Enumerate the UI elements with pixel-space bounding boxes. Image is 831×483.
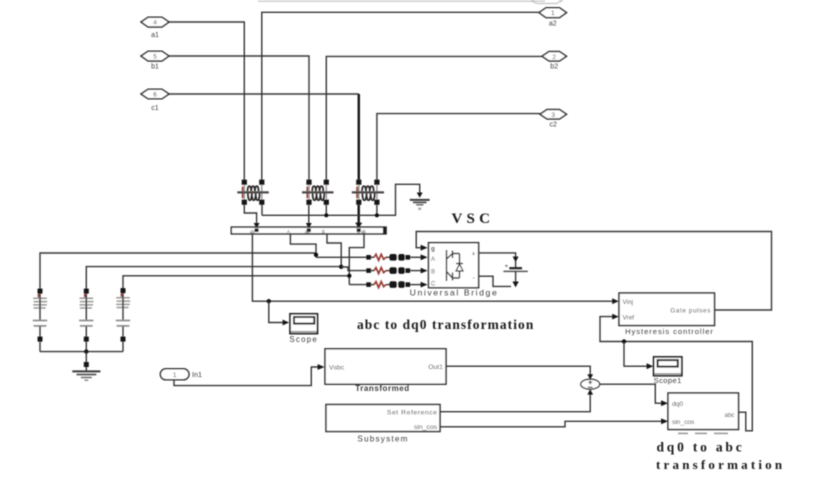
wire In1 to subsystem Vsbc — [174, 367, 318, 386]
arrow down into DC source — [513, 257, 519, 263]
wire bridge - return to DC source — [479, 276, 511, 286]
svg-text:c1: c1 — [151, 105, 159, 112]
svg-text:a1: a1 — [151, 32, 159, 39]
port 2 (b2) — [542, 52, 567, 71]
wire sum to dq0 input — [600, 384, 662, 403]
svg-text:Vref: Vref — [623, 315, 635, 322]
wire filter1 to node A — [40, 253, 316, 289]
arrow into bus (phase C) — [355, 223, 362, 229]
svg-text:Universal Bridge: Universal Bridge — [410, 287, 499, 297]
wire tap to Scope1 — [624, 342, 647, 367]
filter branch F1 (series RLC) — [33, 289, 47, 352]
port 3 (c2) — [540, 110, 567, 129]
ground G2 — [72, 371, 100, 380]
svg-text:dq0 to abc: dq0 to abc — [657, 440, 745, 455]
svg-text:sin_cos: sin_cos — [414, 424, 438, 431]
svg-text:6: 6 — [153, 92, 157, 99]
svg-text:1: 1 — [551, 10, 555, 17]
wire bus Vabc output to Vinj (long) — [252, 234, 613, 301]
dq0 to abc block — [668, 393, 739, 430]
port 4 (a1) — [141, 17, 169, 39]
svg-text:A: A — [287, 229, 290, 234]
svg-text:Scope1: Scope1 — [654, 376, 682, 385]
svg-text:b1: b1 — [151, 64, 159, 71]
transformer T1 — [237, 180, 268, 205]
faint cropped wire at top edge — [258, 0, 545, 2]
wire bold T3 primary vertical — [358, 94, 360, 180]
svg-text:5: 5 — [153, 54, 157, 61]
arrow into Vinj — [612, 298, 619, 304]
port 6 (c1) — [141, 89, 169, 112]
hysteresis controller block — [619, 293, 715, 326]
wire c1 to transformer T3 primary — [169, 93, 359, 95]
wire a1 to transformer T1 primary — [169, 22, 244, 180]
arrow into Scope — [283, 320, 290, 326]
svg-text:2: 2 — [552, 54, 556, 61]
port 5 (b1) — [141, 51, 169, 70]
RL branch B — [366, 267, 427, 274]
DC voltage source C1 — [503, 260, 527, 286]
svg-text:a2: a2 — [549, 21, 557, 28]
wire filter common bus — [40, 351, 123, 353]
arrow into bus (phase A) — [254, 223, 260, 228]
neutral wire T1/T2/T3 secondary bottoms to ground — [262, 184, 420, 215]
wire T3 secondary top to c2 — [377, 114, 540, 180]
junction scope tap — [267, 299, 271, 303]
wire node B to RL branch B — [341, 267, 366, 271]
wire T3 bottom-left to measurement bus — [358, 205, 360, 223]
junction node C — [347, 274, 351, 278]
wire T1 secondary top to a2 — [262, 12, 539, 179]
junction T2 neutral — [324, 213, 328, 217]
wire gate pulses loop to bridge g — [416, 232, 771, 311]
wire bus output B zigzag — [327, 234, 341, 267]
svg-text:VSC: VSC — [452, 211, 495, 227]
filter branch F2 (series RLC) — [79, 289, 93, 352]
svg-text:sin_cos: sin_cos — [672, 419, 695, 426]
arrow into bridge g — [421, 245, 428, 251]
svg-text:Scope: Scope — [289, 335, 318, 344]
svg-text:1: 1 — [173, 372, 177, 379]
arrow into DC source bottom — [512, 282, 518, 288]
wire filter3 to node C — [123, 276, 349, 289]
svg-text:g: g — [431, 246, 435, 253]
arrow into Vref — [612, 314, 619, 320]
subsystem S1 (transformed) — [325, 349, 446, 384]
inport In1 — [160, 369, 189, 380]
svg-text:+: + — [505, 263, 509, 270]
wire Out1 to sum — [446, 366, 590, 375]
wire abc output loop to Vref and Scope1 — [600, 317, 752, 431]
arrow into bus (phase B) — [306, 223, 312, 228]
port 1 (a2) — [539, 8, 567, 28]
RL branch C — [366, 281, 427, 288]
wire T2 secondary top to b2 — [326, 56, 542, 179]
svg-text:A: A — [431, 257, 435, 263]
wire into ground G2 — [85, 367, 87, 371]
arrow into dq0 — [661, 400, 668, 406]
svg-text:3: 3 — [551, 112, 555, 119]
svg-text:Set Reference: Set Reference — [387, 410, 438, 417]
svg-text:Hysteresis controller: Hysteresis controller — [625, 327, 714, 336]
arrow into ground G1 — [417, 193, 423, 198]
ground G1 — [410, 200, 430, 211]
wire filter2 to node B — [86, 267, 341, 289]
label smudge under dq0 block — [678, 433, 728, 435]
scope block Scope1 — [654, 357, 682, 376]
svg-text:abc to dq0 transformation: abc to dq0 transformation — [357, 317, 534, 332]
svg-text:ab: ab — [305, 229, 310, 234]
wire neutral to ground G2 — [85, 352, 87, 363]
scope block Scope — [290, 314, 318, 334]
wire node A to RL branch A — [316, 256, 367, 258]
arrow into Scope1 — [647, 363, 654, 369]
svg-text:Gate pulses: Gate pulses — [670, 308, 711, 315]
junction T3 neutral — [375, 213, 379, 217]
wire T1 bottom-left to measurement bus — [244, 205, 256, 223]
svg-text:Subsystem: Subsystem — [357, 435, 408, 444]
subsystem S2 (reference generator) — [326, 405, 440, 432]
svg-text:dq0: dq0 — [672, 401, 683, 408]
junction node A — [314, 253, 318, 257]
svg-text:4: 4 — [153, 20, 157, 27]
sum block — [581, 379, 600, 389]
junction filter neutral — [84, 349, 88, 353]
wire node C to RL branch C — [349, 284, 366, 286]
svg-text:b2: b2 — [550, 64, 558, 71]
svg-text:+: + — [472, 251, 476, 258]
wire T2 bottom-left to measurement bus — [308, 205, 310, 223]
transformer T2 — [302, 180, 334, 205]
svg-text:Out1: Out1 — [428, 364, 443, 371]
filter branch F3 (series RLC) — [116, 288, 130, 352]
svg-text:In1: In1 — [192, 370, 202, 379]
svg-text:B: B — [431, 269, 435, 275]
svg-text:B: B — [322, 229, 325, 234]
svg-text:c2: c2 — [549, 122, 557, 129]
universal bridge U1 — [429, 243, 479, 288]
wire Set Reference to sum — [440, 394, 590, 412]
arrow into sum top — [587, 374, 593, 379]
svg-text:transformation: transformation — [656, 457, 785, 472]
wire sin_cos to dq0 block — [440, 421, 662, 427]
svg-text:Vsbc: Vsbc — [329, 365, 345, 372]
terminal square G2 — [84, 362, 89, 367]
wire tap to Scope — [269, 301, 283, 322]
svg-text:Vinj: Vinj — [623, 299, 634, 306]
arrow into sin_cos input — [661, 418, 668, 424]
svg-text:abc: abc — [725, 412, 735, 419]
RL branch A — [366, 254, 427, 261]
arrow into sum bottom — [587, 389, 593, 394]
wire b1 to transformer T2 primary — [169, 56, 309, 180]
svg-text:ab: ab — [250, 229, 255, 234]
arrow into Vsbc — [318, 364, 325, 370]
transformer T3 — [352, 180, 384, 205]
wire bridge + to DC source — [479, 253, 516, 258]
three-phase V-I measurement bus — [231, 227, 386, 234]
svg-text:Transformed: Transformed — [355, 384, 410, 393]
faint cropped port at top edge — [531, 0, 562, 4]
svg-text:C ab: C ab — [357, 229, 367, 234]
junction Vref/Scope1 tap — [622, 339, 626, 343]
junction node B — [339, 265, 343, 269]
wire bus output A zigzag — [290, 234, 316, 257]
wire bus output C zigzag — [349, 234, 364, 285]
